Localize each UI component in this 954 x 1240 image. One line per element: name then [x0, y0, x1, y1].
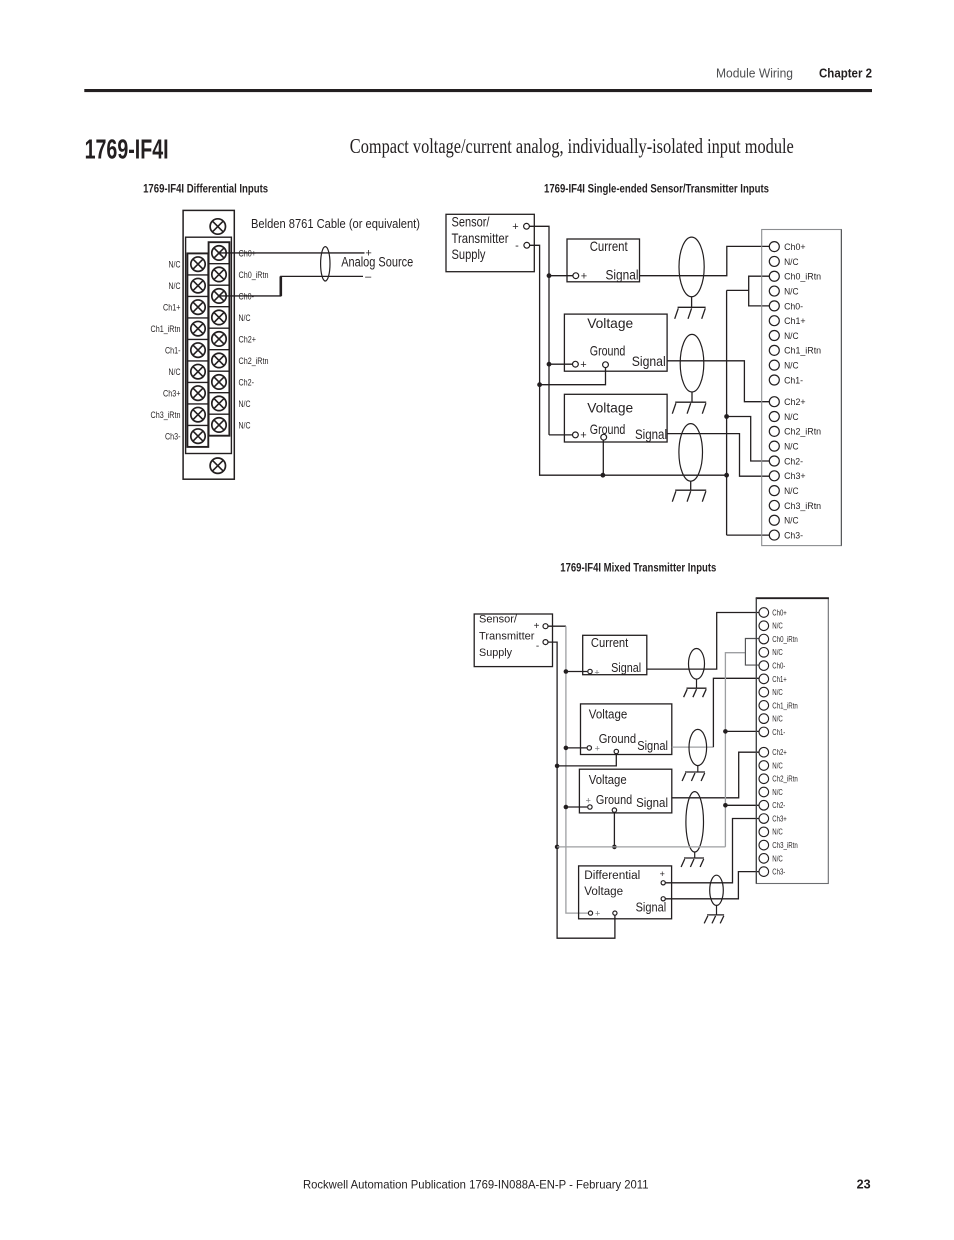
- svg-text:+: +: [581, 270, 587, 282]
- svg-text:Ch2-: Ch2-: [772, 800, 785, 810]
- wire branch to voltage1 + (mixed): [566, 747, 587, 749]
- terminal Ch3- (left column): [191, 429, 205, 443]
- shield drain to ground row3: [690, 481, 692, 490]
- supply + terminal (mixed): [543, 624, 548, 629]
- pin Ch0_iRtn (mixed strip): [759, 634, 769, 644]
- junction dot supply+ to current box: [547, 273, 552, 278]
- svg-text:N/C: N/C: [784, 516, 799, 527]
- svg-text:Signal: Signal: [606, 267, 639, 283]
- wire voltage2 ground to common: [602, 440, 604, 475]
- junction dot ground1 joins - rail (mixed): [555, 764, 560, 769]
- voltage1 + terminal: [573, 361, 579, 367]
- svg-text:Ch3-: Ch3-: [784, 530, 803, 541]
- right column cell separator: [209, 306, 230, 308]
- svg-text:Ch1-: Ch1-: [784, 375, 803, 386]
- terminal N/C (right column): [212, 396, 226, 410]
- svg-text:N/C: N/C: [772, 827, 783, 837]
- svg-text:N/C: N/C: [784, 331, 799, 342]
- svg-text:Ch1-: Ch1-: [165, 346, 181, 357]
- wire voltage2 signal to Ch3+: [667, 434, 770, 477]
- pin Ch2- (single-ended strip): [769, 456, 779, 466]
- wire voltage1 signal to Ch1+ (mixed): [713, 678, 759, 747]
- differential + output terminal: [661, 881, 665, 885]
- junction dot return to Ch2- (mixed): [723, 803, 728, 808]
- svg-text:Ch3-: Ch3-: [165, 432, 181, 443]
- ground symbol row2: [675, 401, 706, 403]
- cable shield ellipse row1 (mixed): [689, 649, 705, 680]
- right column cell separator: [209, 327, 230, 329]
- shield drain row1 (mixed): [696, 679, 698, 688]
- right column cell separator: [209, 413, 230, 415]
- svg-text:Ch3+: Ch3+: [784, 471, 806, 482]
- pin Ch2+ (mixed strip): [759, 747, 769, 757]
- junction dot + to voltage1 (mixed): [564, 746, 569, 751]
- svg-text:Ch0_iRtn: Ch0_iRtn: [239, 270, 269, 281]
- svg-text:N/C: N/C: [772, 621, 783, 631]
- cable shield ellipse row2: [680, 334, 704, 392]
- svg-text:N/C: N/C: [772, 647, 783, 657]
- wire differential - to Ch3- (mixed): [665, 872, 759, 899]
- svg-text:Ch2+: Ch2+: [772, 747, 787, 757]
- svg-text:N/C: N/C: [772, 687, 783, 697]
- differential ground terminal: [613, 911, 617, 915]
- svg-text:Ch3_iRtn: Ch3_iRtn: [772, 840, 798, 850]
- svg-text:Belden 8761 Cable (or equivale: Belden 8761 Cable (or equivalent): [251, 216, 420, 231]
- svg-text:N/C: N/C: [772, 714, 783, 724]
- svg-text:Signal: Signal: [632, 353, 666, 369]
- voltage transmitter box 1 (mixed): [581, 704, 672, 755]
- wire Ch0- to analog source - with jog: [219, 276, 363, 296]
- pin Ch0- (mixed strip): [759, 661, 769, 671]
- svg-text:+: +: [595, 909, 600, 919]
- right column cell separator: [209, 263, 230, 265]
- shield drain row2 (mixed): [697, 766, 699, 772]
- svg-text:Ch2_iRtn: Ch2_iRtn: [784, 427, 821, 438]
- pin N/C (single-ended strip): [769, 412, 779, 422]
- svg-text:+: +: [595, 743, 600, 753]
- voltage transmitter box 2 (mixed): [579, 769, 671, 813]
- shield drain row3 (mixed): [694, 852, 696, 858]
- terminal Ch0+ (right column): [212, 246, 226, 260]
- wire Ch0+ to analog source +: [219, 252, 365, 254]
- svg-text:Analog Source: Analog Source: [341, 255, 413, 270]
- right column cell separator: [209, 392, 230, 394]
- svg-text:1769-IF4I: 1769-IF4I: [85, 134, 169, 165]
- ground symbol row2 (mixed): [685, 771, 705, 773]
- wire + rail gray (mixed): [566, 626, 588, 913]
- ground symbol row1 (mixed): [687, 687, 707, 689]
- wire supply + lead (mixed): [548, 625, 566, 627]
- svg-text:N/C: N/C: [772, 760, 783, 770]
- wire voltage2 ground to common (mixed): [613, 812, 615, 847]
- svg-text:Ch1-: Ch1-: [772, 727, 785, 737]
- wire voltage1 signal gray segment (mixed): [672, 746, 714, 748]
- svg-text:Ch1+: Ch1+: [784, 316, 806, 327]
- pin Ch2- (mixed strip): [759, 800, 769, 810]
- pin Ch1_iRtn (single-ended strip): [769, 345, 779, 355]
- current + terminal (mixed): [588, 669, 592, 673]
- pin Ch0+ (mixed strip): [759, 608, 769, 618]
- supply + terminal: [524, 223, 530, 229]
- left column cell separator: [187, 381, 208, 383]
- svg-text:Ch1_iRtn: Ch1_iRtn: [772, 700, 798, 710]
- wire branch to current +: [549, 275, 573, 277]
- svg-text:Ch0_iRtn: Ch0_iRtn: [772, 634, 798, 644]
- current transmitter box: [567, 239, 640, 282]
- svg-text:Ch3+: Ch3+: [772, 813, 787, 823]
- wire branch to voltage2 +: [549, 434, 573, 436]
- svg-text:N/C: N/C: [239, 313, 251, 324]
- svg-text:Compact voltage/current analog: Compact voltage/current analog, individu…: [350, 134, 794, 158]
- current transmitter box (mixed): [583, 635, 647, 674]
- svg-text:Ch0+: Ch0+: [772, 607, 787, 617]
- svg-text:Ch0+: Ch0+: [239, 248, 257, 259]
- pin Ch1+ (mixed strip): [759, 674, 769, 684]
- left column cell separator: [187, 338, 208, 340]
- svg-text:Ground: Ground: [599, 732, 636, 746]
- svg-text:+: +: [512, 221, 518, 233]
- shield drain to ground row1: [691, 297, 693, 308]
- svg-text:Voltage: Voltage: [587, 315, 633, 331]
- svg-text:Ch3_iRtn: Ch3_iRtn: [784, 501, 821, 512]
- svg-text:Current: Current: [591, 636, 629, 650]
- svg-text:Ground: Ground: [596, 793, 632, 807]
- wire voltage2 signal to Ch2+ (mixed): [672, 752, 759, 798]
- svg-text:+: +: [586, 795, 591, 805]
- wire branch to voltage1 +: [549, 363, 573, 365]
- svg-text:N/C: N/C: [784, 486, 799, 497]
- return bus top link to iRtn bracket: [727, 289, 749, 291]
- terminal block bottom mounting screw: [210, 458, 225, 473]
- svg-text:Signal: Signal: [637, 739, 668, 753]
- shield drain row4 (mixed): [716, 905, 718, 915]
- svg-text:N/C: N/C: [169, 260, 181, 271]
- pin N/C (mixed strip): [759, 787, 769, 797]
- left column cell separator: [187, 360, 208, 362]
- header rule: [84, 89, 872, 92]
- svg-text:Ch0-: Ch0-: [772, 660, 785, 670]
- svg-text:Transmitter: Transmitter: [479, 630, 535, 642]
- voltage2 ground terminal: [601, 434, 607, 440]
- pin Ch3_iRtn (mixed strip): [759, 840, 769, 850]
- wire voltage1 signal to Ch2+: [667, 361, 770, 402]
- svg-text:+: +: [594, 667, 599, 677]
- terminal strip right edge (single-ended): [840, 230, 842, 546]
- sensor/transmitter supply box (mixed): [474, 614, 552, 667]
- svg-text:Voltage: Voltage: [584, 886, 623, 898]
- svg-text:1769-IF4I Differential Inputs: 1769-IF4I Differential Inputs: [143, 182, 268, 196]
- svg-text:N/C: N/C: [784, 361, 799, 372]
- cable shield ellipse row3: [679, 424, 703, 482]
- pin N/C (single-ended strip): [769, 515, 779, 525]
- terminal Ch0_iRtn (right column): [212, 267, 226, 281]
- terminal block top mounting screw: [210, 219, 225, 234]
- pin N/C (mixed strip): [759, 687, 769, 697]
- svg-text:Ch1+: Ch1+: [163, 303, 181, 314]
- voltage transmitter box 2: [564, 394, 667, 442]
- wire branch to current + (mixed): [566, 671, 587, 673]
- left column cell separator: [187, 295, 208, 297]
- wire return branch to Ch3-: [727, 534, 770, 536]
- svg-text:N/C: N/C: [169, 367, 181, 378]
- pin N/C (single-ended strip): [769, 256, 779, 266]
- wire supply + rail: [529, 226, 549, 435]
- current + terminal: [573, 273, 579, 279]
- right terminal column block: [209, 242, 230, 436]
- junction dot + to current (mixed): [564, 669, 569, 674]
- svg-text:Ground: Ground: [590, 421, 626, 437]
- sensor/transmitter supply box: [446, 214, 534, 271]
- terminal Ch3+ (left column): [191, 386, 205, 400]
- svg-text:N/C: N/C: [772, 853, 783, 863]
- svg-text:Voltage: Voltage: [589, 773, 627, 787]
- voltage2 + terminal (mixed): [588, 805, 592, 809]
- differential supply + terminal: [588, 911, 592, 915]
- terminal Ch1- (left column): [191, 343, 205, 357]
- voltage1 ground terminal: [603, 362, 609, 368]
- terminal N/C (left column): [191, 257, 205, 271]
- svg-text:Ch3-: Ch3-: [772, 867, 785, 877]
- pin N/C (mixed strip): [759, 827, 769, 837]
- svg-text:Rockwell Automation Publicatio: Rockwell Automation Publication 1769-IN0…: [303, 1178, 649, 1192]
- wire supply - rail to common: [530, 245, 727, 475]
- left column cell separator: [187, 274, 208, 276]
- pin Ch0+ (single-ended strip): [769, 242, 779, 252]
- cable shield ellipse row4 (mixed): [710, 875, 724, 905]
- terminal Ch1_iRtn (left column): [191, 321, 205, 335]
- svg-text:Ch0-: Ch0-: [239, 291, 255, 302]
- pin Ch0_iRtn (single-ended strip): [769, 271, 779, 281]
- junction dot return to Ch2-: [724, 414, 729, 419]
- pin Ch2_iRtn (mixed strip): [759, 774, 769, 784]
- pin Ch1- (single-ended strip): [769, 375, 779, 385]
- svg-text:Sensor/: Sensor/: [479, 614, 518, 626]
- svg-text:Ch2_iRtn: Ch2_iRtn: [772, 774, 798, 784]
- svg-text:1769-IF4I Single-ended Sensor/: 1769-IF4I Single-ended Sensor/Transmitte…: [544, 182, 769, 196]
- terminal strip left edge (mixed): [755, 598, 757, 883]
- svg-text:1769-IF4I Mixed Transmitter In: 1769-IF4I Mixed Transmitter Inputs: [560, 561, 716, 575]
- junction dot return to Ch1- (mixed): [723, 729, 728, 734]
- shield drain to ground row2: [691, 392, 693, 402]
- wire voltage1 ground to - rail (mixed): [557, 754, 616, 766]
- junction dot supply+ to voltage box 1: [547, 362, 552, 367]
- svg-text:N/C: N/C: [239, 399, 251, 410]
- svg-text:Ch3_iRtn: Ch3_iRtn: [151, 410, 181, 421]
- pin Ch3- (single-ended strip): [769, 530, 779, 540]
- return bus vertical: [726, 290, 728, 535]
- pin Ch1+ (single-ended strip): [769, 316, 779, 326]
- wire current signal to Ch0+ (mixed): [647, 613, 759, 670]
- wire return branch to Ch2- (mixed): [725, 804, 759, 806]
- svg-text:23: 23: [857, 1178, 871, 1192]
- svg-text:Ground: Ground: [590, 343, 626, 359]
- svg-text:+: +: [580, 430, 586, 442]
- pin N/C (single-ended strip): [769, 486, 779, 496]
- svg-text:Ch2_iRtn: Ch2_iRtn: [239, 356, 269, 367]
- wire voltage1 ground to - rail: [540, 368, 606, 385]
- svg-text:Sensor/: Sensor/: [452, 213, 490, 229]
- terminal strip top edge (mixed): [756, 597, 829, 599]
- pin N/C (single-ended strip): [769, 331, 779, 341]
- svg-text:Transmitter: Transmitter: [452, 230, 509, 246]
- svg-text:Ch0+: Ch0+: [784, 242, 806, 253]
- ground symbol row3: [675, 489, 706, 491]
- pin Ch3+ (single-ended strip): [769, 471, 779, 481]
- terminal strip (single-ended): [762, 230, 842, 546]
- wire differential + to Ch3+ (mixed): [665, 819, 759, 883]
- differential voltage box (mixed): [579, 866, 672, 919]
- svg-text:Current: Current: [590, 238, 628, 254]
- right column cell separator: [209, 370, 230, 372]
- svg-text:Ch2+: Ch2+: [784, 397, 806, 408]
- pin N/C (single-ended strip): [769, 360, 779, 370]
- svg-text:+: +: [534, 621, 540, 632]
- ground symbol row1: [678, 306, 706, 308]
- voltage2 ground terminal (mixed): [612, 808, 616, 812]
- svg-text:+: +: [660, 869, 665, 879]
- wire return branch to Ch2-: [727, 417, 770, 462]
- common return gray bus (mixed): [557, 846, 725, 848]
- pin N/C (mixed strip): [759, 714, 769, 724]
- svg-text:Differential: Differential: [584, 870, 640, 882]
- pin Ch2+ (single-ended strip): [769, 397, 779, 407]
- pin Ch3_iRtn (single-ended strip): [769, 500, 779, 510]
- pin Ch2_iRtn (single-ended strip): [769, 426, 779, 436]
- pin Ch1_iRtn (mixed strip): [759, 701, 769, 711]
- svg-text:N/C: N/C: [169, 281, 181, 292]
- svg-text:-: -: [536, 641, 539, 652]
- right column cell separator: [209, 349, 230, 351]
- terminal Ch3_iRtn (left column): [191, 407, 205, 421]
- pin N/C (mixed strip): [759, 854, 769, 864]
- svg-text:Ch1_iRtn: Ch1_iRtn: [784, 346, 821, 357]
- svg-text:+: +: [580, 359, 586, 371]
- svg-text:Ch2-: Ch2-: [784, 456, 803, 467]
- svg-text:Ch1_iRtn: Ch1_iRtn: [151, 324, 181, 335]
- svg-text:Signal: Signal: [611, 661, 641, 675]
- cable shield ellipse row1: [679, 237, 704, 297]
- voltage1 + terminal (mixed): [587, 746, 591, 750]
- voltage1 ground terminal (mixed): [614, 749, 618, 753]
- supply - terminal (mixed): [543, 640, 548, 645]
- wire return branch to Ch1- (mixed): [725, 730, 759, 732]
- voltage transmitter box 1: [564, 314, 667, 371]
- cable shield ellipse row3 (mixed): [686, 792, 704, 852]
- right column cell separator: [209, 284, 230, 286]
- cable shield ellipse row2 (mixed): [689, 729, 707, 765]
- svg-text:-: -: [515, 240, 519, 252]
- svg-text:N/C: N/C: [239, 420, 251, 431]
- ground symbol row3 (mixed): [684, 857, 704, 859]
- pin Ch3+ (mixed strip): [759, 814, 769, 824]
- svg-text:Ch1+: Ch1+: [772, 674, 787, 684]
- svg-text:–: –: [365, 271, 372, 283]
- junction dot ground2 on common (mixed): [612, 845, 617, 850]
- svg-text:N/C: N/C: [784, 442, 799, 453]
- left terminal column block: [187, 253, 208, 447]
- pin N/C (single-ended strip): [769, 286, 779, 296]
- terminal N/C (left column): [191, 364, 205, 378]
- terminal N/C (right column): [212, 310, 226, 324]
- left column cell separator: [187, 317, 208, 319]
- junction dot + to voltage2 (mixed): [564, 805, 569, 810]
- bracket linking Ch0_iRtn and Ch0- (mixed): [745, 639, 759, 666]
- wire current signal to Ch0+: [640, 246, 770, 275]
- svg-text:Signal: Signal: [636, 901, 667, 915]
- svg-text:Ch0_iRtn: Ch0_iRtn: [784, 272, 821, 283]
- terminal Ch2_iRtn (right column): [212, 353, 226, 367]
- svg-text:Module Wiring: Module Wiring: [716, 66, 793, 81]
- svg-text:Ch3+: Ch3+: [163, 389, 181, 400]
- junction dot common meets return bus: [724, 473, 729, 478]
- wire branch to voltage2 + (mixed): [566, 806, 587, 808]
- terminal block outer housing: [183, 210, 234, 479]
- junction dot ground2 joins common: [601, 473, 606, 478]
- svg-text:Voltage: Voltage: [587, 400, 633, 416]
- bracket linking Ch0_iRtn and Ch0-: [749, 276, 770, 306]
- terminal Ch1+ (left column): [191, 300, 205, 314]
- supply - terminal: [524, 242, 530, 248]
- terminal strip (mixed): [756, 598, 828, 883]
- pin N/C (single-ended strip): [769, 441, 779, 451]
- svg-text:N/C: N/C: [784, 412, 799, 423]
- svg-text:Ch2-: Ch2-: [239, 377, 255, 388]
- pin N/C (mixed strip): [759, 621, 769, 631]
- voltage2 + terminal: [573, 432, 579, 438]
- svg-text:N/C: N/C: [772, 787, 783, 797]
- svg-text:Ch2+: Ch2+: [239, 334, 257, 345]
- terminal Ch2- (right column): [212, 375, 226, 389]
- left column cell separator: [187, 424, 208, 426]
- ground symbol row4 (mixed): [707, 914, 724, 916]
- differential - output terminal: [661, 897, 665, 901]
- svg-text:N/C: N/C: [784, 257, 799, 268]
- cable shield ellipse: [321, 247, 330, 281]
- svg-text:Signal: Signal: [635, 426, 667, 442]
- svg-text:N/C: N/C: [784, 286, 799, 297]
- terminal Ch0- (right column): [212, 289, 226, 303]
- terminal Ch2+ (right column): [212, 332, 226, 346]
- junction dot - rail meets common (mixed): [555, 845, 560, 850]
- pin N/C (mixed strip): [759, 648, 769, 658]
- pin Ch0- (single-ended strip): [769, 301, 779, 311]
- left column cell separator: [187, 403, 208, 405]
- terminal N/C (left column): [191, 278, 205, 292]
- svg-text:Supply: Supply: [479, 647, 512, 659]
- wire - rail (mixed): [548, 642, 615, 938]
- terminal N/C (right column): [212, 418, 226, 432]
- pin N/C (mixed strip): [759, 761, 769, 771]
- pin Ch3- (mixed strip): [759, 867, 769, 877]
- svg-text:Chapter 2: Chapter 2: [819, 66, 872, 81]
- svg-text:Supply: Supply: [452, 246, 486, 262]
- terminal block inner frame: [186, 237, 232, 453]
- pin Ch1- (mixed strip): [759, 727, 769, 737]
- junction dot ground1 joins - rail: [537, 382, 542, 387]
- svg-text:Voltage: Voltage: [589, 708, 628, 722]
- svg-text:Signal: Signal: [636, 796, 668, 810]
- svg-text:Ch0-: Ch0-: [784, 301, 803, 312]
